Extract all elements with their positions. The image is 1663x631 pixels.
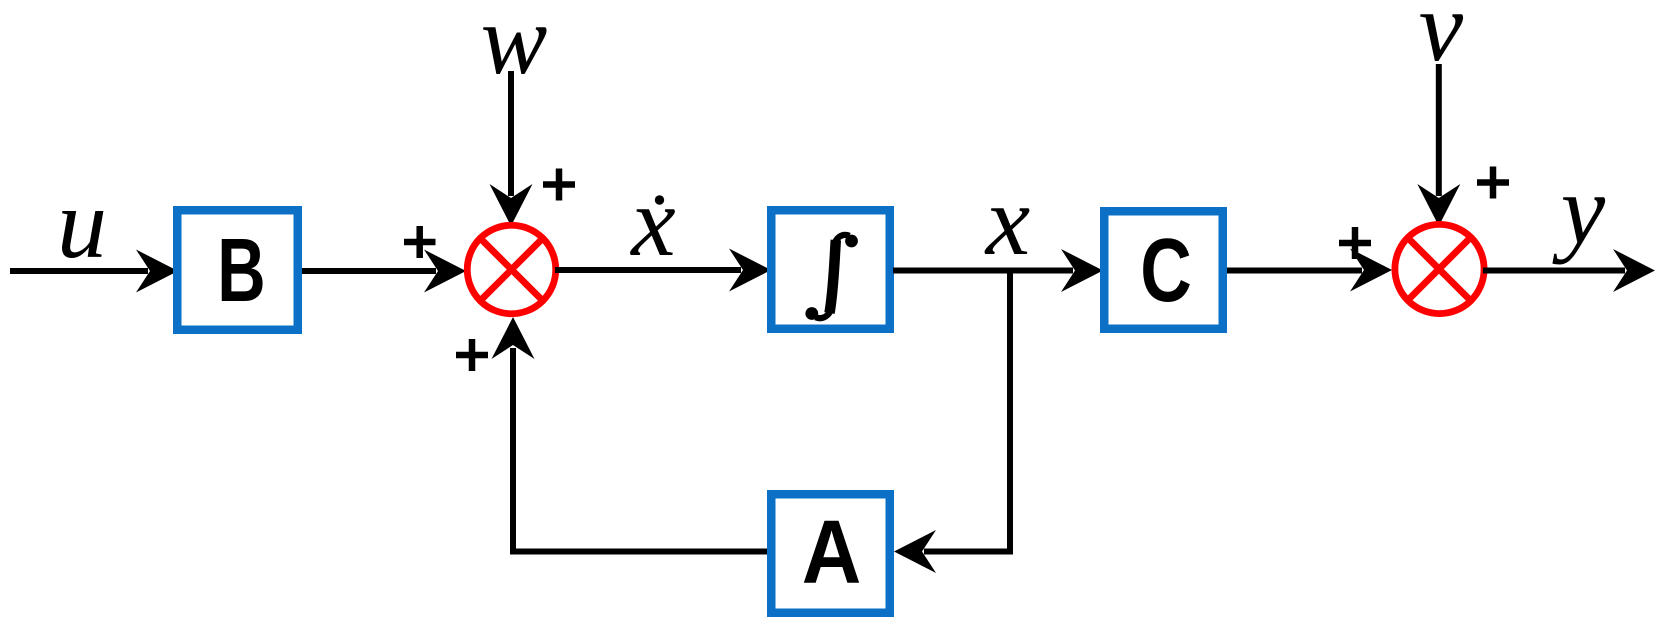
plus sign at sum2 left input — [1339, 227, 1371, 259]
wire B to sum1 — [302, 268, 436, 274]
wire sum1 to integrator — [555, 267, 741, 273]
label C — [1140, 220, 1192, 321]
summing junction sum1 — [467, 225, 556, 314]
arrowhead into sum2 left — [1350, 249, 1392, 292]
arrowhead w into sum1 top — [490, 184, 533, 226]
integrator block — [771, 210, 890, 329]
plus sign at sum1 bottom input — [456, 339, 488, 371]
arrowhead into C — [1061, 249, 1103, 292]
svg-text:x: x — [984, 165, 1030, 276]
wire u input — [10, 268, 148, 274]
arrowhead into A right side — [894, 530, 936, 573]
node branch: x down to feedback — [924, 271, 1010, 552]
wire v input — [1436, 64, 1442, 196]
wire A to sum1 bottom — [513, 348, 767, 552]
label B — [217, 219, 265, 320]
arrowhead v into sum2 top — [1417, 184, 1460, 226]
wire w input — [508, 71, 514, 196]
svg-text:B: B — [217, 219, 265, 320]
svg-text:u: u — [57, 168, 107, 279]
svg-text:A: A — [802, 503, 862, 603]
wire integrator to C — [893, 268, 1073, 274]
svg-text:x: x — [629, 166, 675, 277]
svg-text:C: C — [1140, 220, 1192, 321]
arrowhead into B — [136, 250, 178, 293]
label A — [802, 503, 862, 603]
block A — [771, 494, 890, 613]
wire sum2 to output — [1483, 268, 1625, 274]
arrowhead into integrator — [729, 249, 771, 292]
arrowhead into sum1 left — [424, 250, 466, 293]
wire C to sum2 — [1227, 268, 1362, 274]
integral symbol — [805, 235, 858, 320]
svg-text:y: y — [1552, 154, 1606, 265]
plus sign at sum1 left input — [404, 226, 436, 258]
output arrowhead — [1613, 249, 1655, 292]
arrowhead into sum1 bottom — [492, 317, 535, 359]
summing junction sum2 — [1395, 224, 1484, 313]
block B — [177, 210, 298, 330]
block C — [1104, 211, 1223, 329]
plus sign at sum1 top input — [543, 169, 575, 201]
plus sign at sum2 top input — [1477, 167, 1509, 199]
